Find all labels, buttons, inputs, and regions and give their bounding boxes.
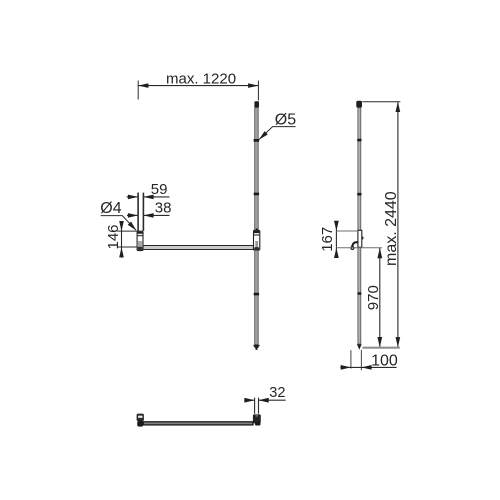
label Ø5 xyxy=(275,111,296,128)
dimension 32 line xyxy=(244,398,285,403)
front view rod top cap xyxy=(254,101,259,108)
dimension max. 1220 line xyxy=(138,83,258,88)
side view floor line xyxy=(362,347,399,349)
dimension 32 left extension line xyxy=(254,398,256,414)
side view rod top cap xyxy=(356,101,362,108)
dimension 100 label xyxy=(371,353,398,370)
dimension 970 line xyxy=(377,248,382,347)
dimension 167 label (rotated) xyxy=(319,227,336,252)
svg-text:100: 100 xyxy=(371,353,398,370)
side view vertical rod xyxy=(358,108,361,344)
dimension 59 line xyxy=(127,195,170,200)
label Ø4 xyxy=(100,200,121,217)
dimension 146 line xyxy=(119,221,124,258)
Ø5 leader line xyxy=(259,127,296,140)
dimension 100 line xyxy=(340,365,396,370)
push bar xyxy=(143,246,254,250)
side view rod bottom bolt tip xyxy=(357,344,362,349)
extension line left pair for 59 and 38 xyxy=(137,193,139,231)
dimension 59 label xyxy=(151,181,168,198)
dimension 32 label xyxy=(269,385,285,401)
dimension 100 right extension line xyxy=(360,350,362,370)
Ø4 leader line xyxy=(101,216,137,231)
dimension 146 bottom extension line xyxy=(117,246,137,248)
dimension 38 line xyxy=(127,213,170,218)
svg-text:146: 146 xyxy=(105,224,122,249)
svg-text:Ø4: Ø4 xyxy=(100,200,121,217)
dimension 38 label xyxy=(155,200,172,217)
side view rod connector tick 2 xyxy=(357,193,361,196)
top view right end block xyxy=(253,414,261,425)
dimension 167 line xyxy=(334,221,339,258)
side view rod guide housing xyxy=(358,230,364,247)
svg-text:167: 167 xyxy=(319,227,336,252)
push bar right end cap xyxy=(254,229,260,251)
front view lower vertical rod xyxy=(255,250,259,344)
front view rod connector tick 3 xyxy=(254,293,259,296)
top view bar xyxy=(143,422,253,425)
dimension 146 top extension line xyxy=(117,230,137,232)
side view rod connector tick 3 xyxy=(357,292,361,295)
side view rod connector tick 1 xyxy=(357,139,361,142)
front view upper vertical rod xyxy=(255,108,259,231)
dimension 970 label (rotated) xyxy=(365,285,382,310)
dimension max. 2440 label (rotated) xyxy=(383,191,400,266)
dimension 167 top extension line xyxy=(336,230,358,232)
dimension 167 / 970 shared extension line xyxy=(336,247,382,249)
svg-text:max. 1220: max. 1220 xyxy=(166,71,236,88)
front view rod connector tick 2 xyxy=(254,193,259,196)
svg-text:32: 32 xyxy=(269,385,285,401)
extension line right pair for 59 and 38 xyxy=(142,193,144,231)
side view top extension line xyxy=(362,101,400,103)
dimension 146 label (rotated) xyxy=(105,224,122,249)
top view left end block xyxy=(137,414,144,427)
front view rod bottom bolt tip xyxy=(253,345,260,350)
svg-text:Ø5: Ø5 xyxy=(275,111,296,128)
dimension 100 left extension line xyxy=(350,350,352,368)
dimension max. 1220 right extension line xyxy=(257,81,259,101)
dimension max. 2440 line xyxy=(396,102,401,347)
dimension 32 right extension line xyxy=(258,398,260,414)
dimension max. 1220 left extension line xyxy=(137,81,139,100)
front view rod connector tick 1 xyxy=(254,139,260,142)
dimension max. 1220 label xyxy=(166,71,236,88)
push bar left end cap xyxy=(137,231,143,250)
svg-text:38: 38 xyxy=(155,200,172,217)
side view release lever with ring end xyxy=(351,242,359,249)
